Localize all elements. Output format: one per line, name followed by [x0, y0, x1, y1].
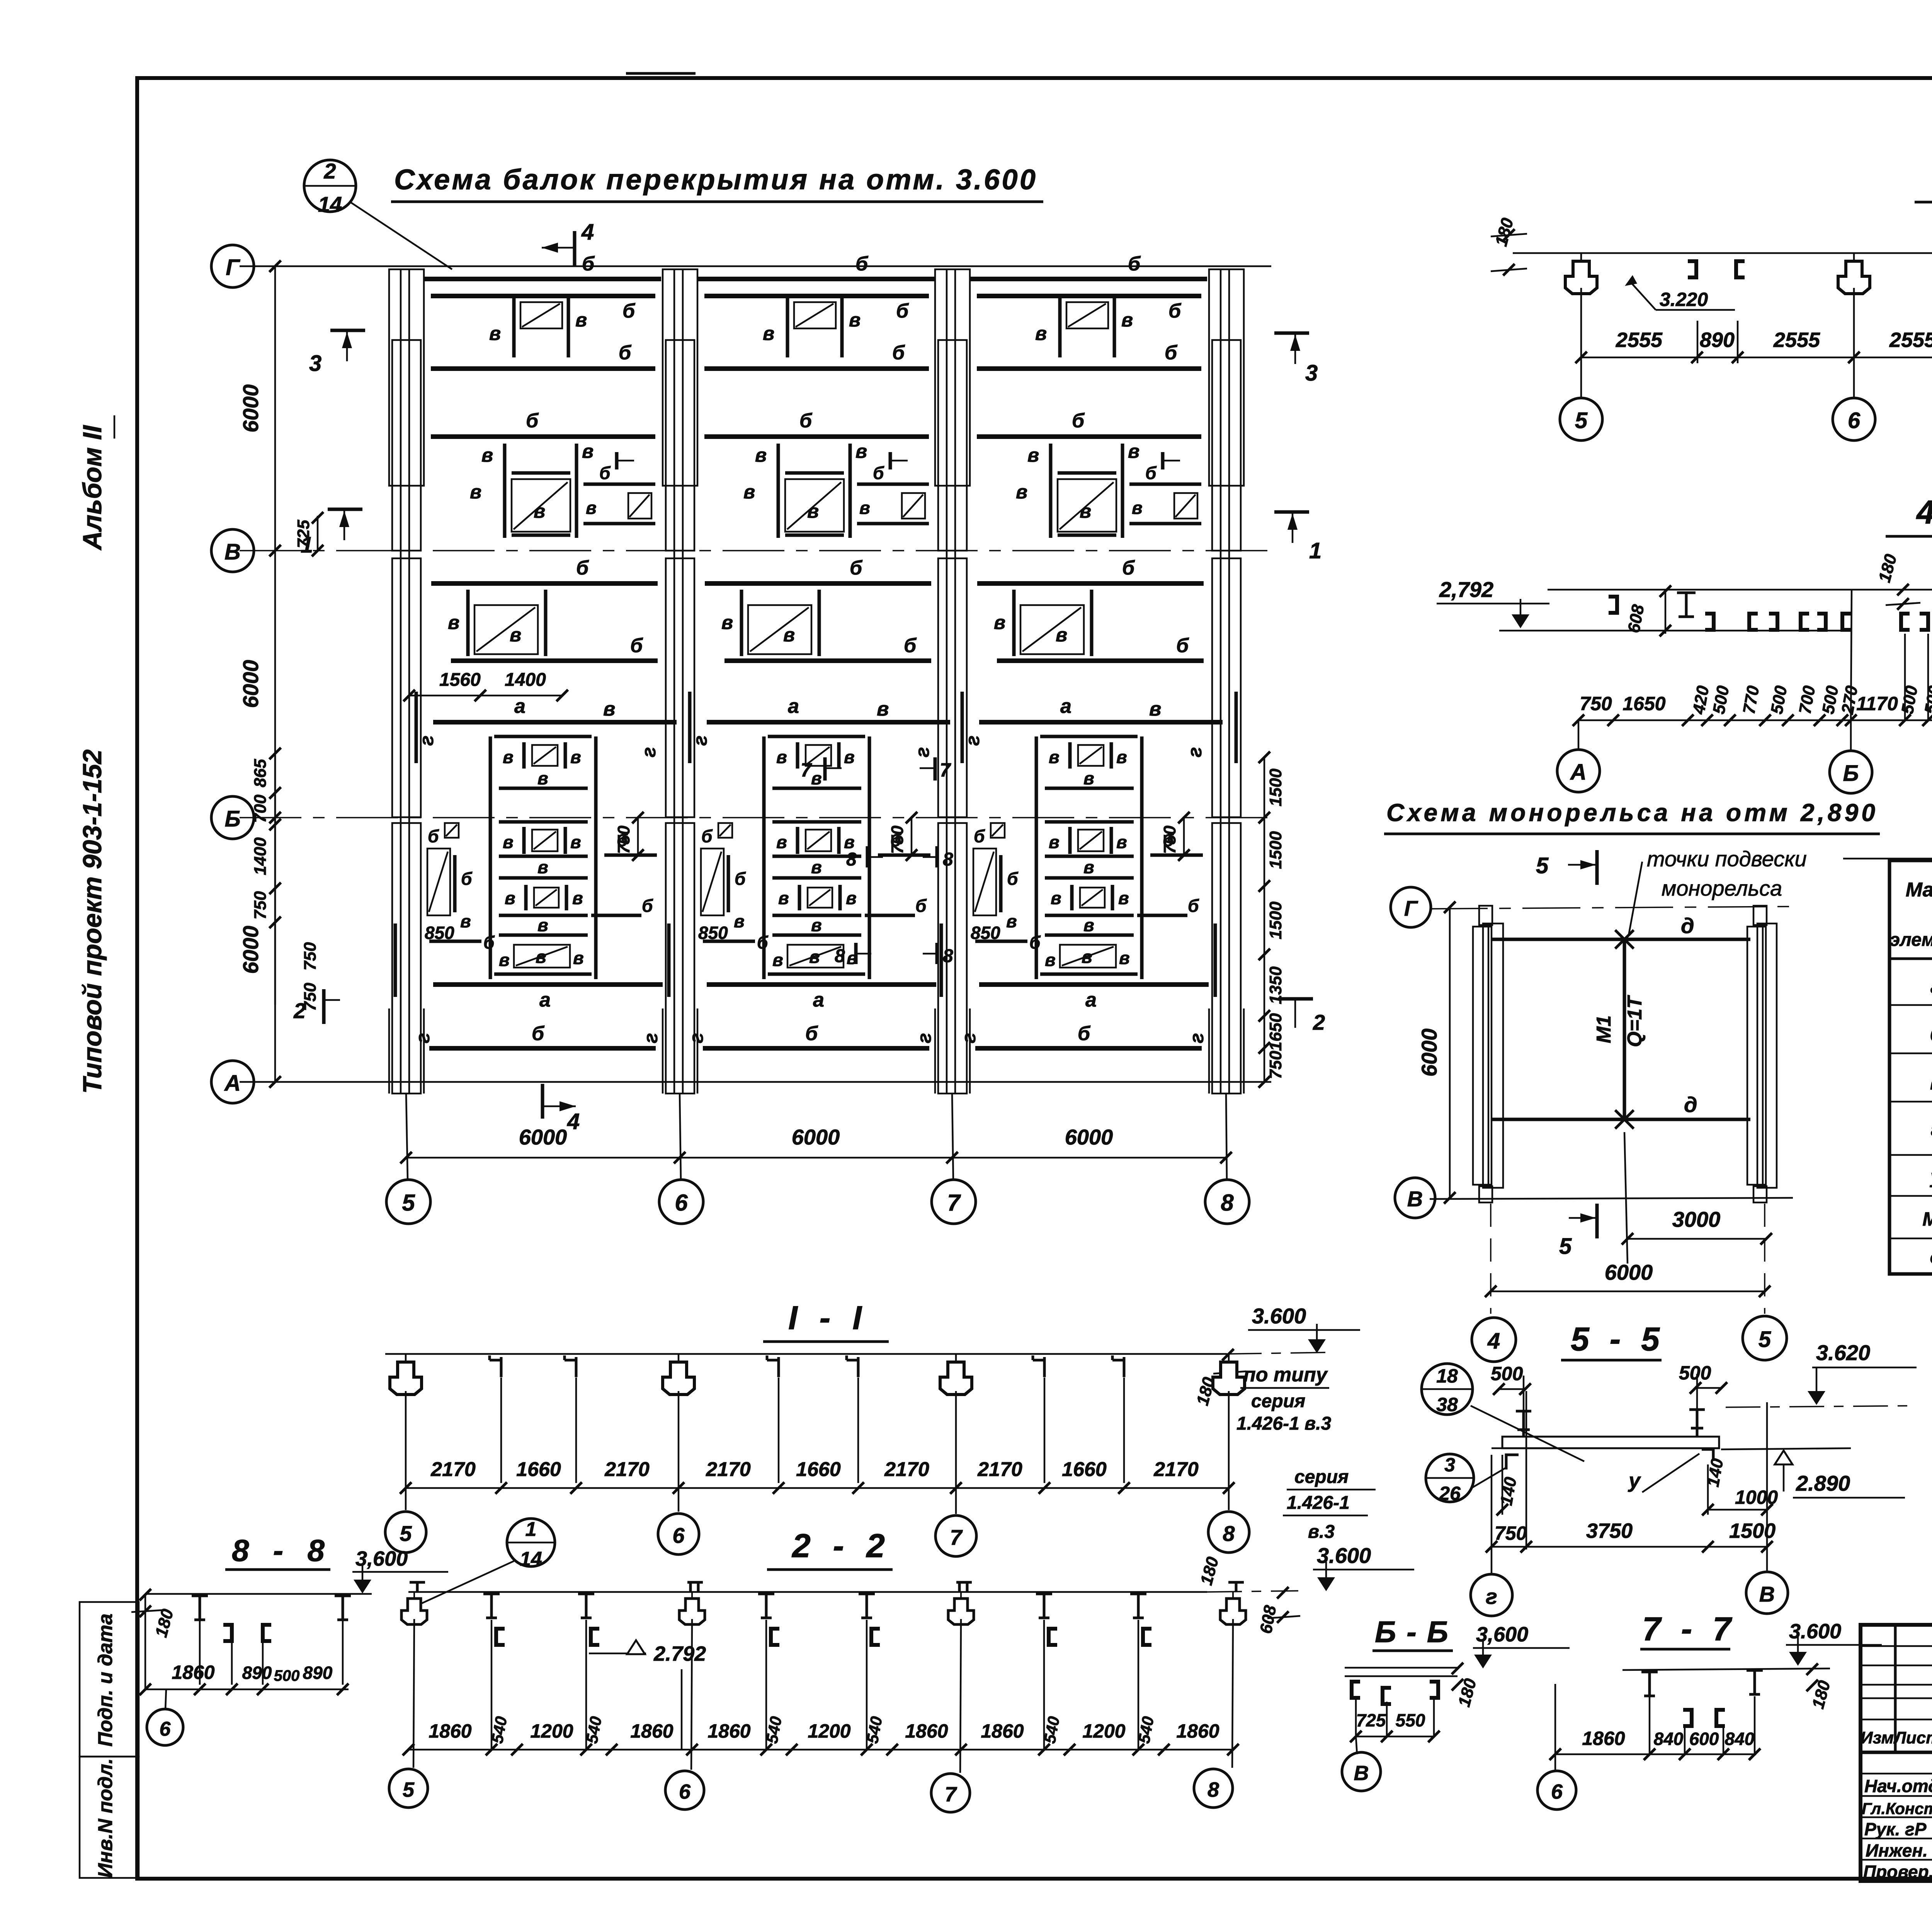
svg-text:26: 26: [1439, 1483, 1461, 1504]
svg-text:7: 7: [950, 1525, 963, 1549]
svg-text:1650: 1650: [1622, 693, 1665, 714]
svg-text:В: В: [1354, 1762, 1369, 1785]
axis line А: [240, 1081, 1271, 1083]
svg-text:Г: Г: [1404, 896, 1418, 920]
I hangers: [192, 1596, 208, 1620]
axis line Г: [240, 265, 1271, 267]
crowns small: [401, 1592, 427, 1624]
svg-text:6: 6: [672, 1523, 685, 1548]
column stubs: [1580, 288, 1582, 398]
dims 1560 1400 (bay 5-6 only): [403, 670, 568, 701]
column stubs to circles: [406, 1094, 408, 1180]
section mark 2 right: [1278, 997, 1313, 1001]
svg-text:14: 14: [318, 192, 342, 216]
top beam д: [1492, 938, 1750, 941]
dim line: [145, 1689, 349, 1690]
svg-text:Б: Б: [224, 806, 240, 832]
svg-text:2170: 2170: [977, 1458, 1022, 1481]
svg-text:2: 2: [1313, 1010, 1325, 1034]
grid circle 6: [659, 1180, 703, 1224]
svg-text:750: 750: [1266, 1051, 1285, 1079]
2.890: [1775, 1451, 1793, 1464]
section mark 5 bottom: [1569, 1217, 1596, 1219]
svg-text:8: 8: [943, 946, 953, 966]
svg-text:2555: 2555: [1616, 328, 1663, 352]
725 sub dim at В: [317, 516, 319, 551]
svg-text:1860: 1860: [1582, 1728, 1625, 1749]
svg-text:д: д: [1681, 913, 1694, 938]
bay 5-6 content: [412, 253, 677, 1048]
section mark 4 bottom: [541, 1084, 544, 1119]
TITLE BLOCK: [1861, 1625, 1932, 1918]
svg-text:750: 750: [251, 891, 270, 920]
axis circles: [389, 1769, 428, 1808]
svg-text:1660: 1660: [1062, 1458, 1107, 1481]
dim line: [1578, 719, 1932, 721]
right dim chain 1500 1500 1350 1650 750: [1264, 818, 1265, 1082]
svg-text:8: 8: [943, 849, 953, 870]
left column: [1473, 927, 1492, 1185]
axis circles: [1471, 1574, 1512, 1616]
3.220 leader: [1625, 275, 1637, 286]
dim line: [1555, 1753, 1756, 1755]
crowns: [390, 1354, 422, 1395]
svg-text:В: В: [1759, 1582, 1775, 1606]
table outer: [1889, 861, 1932, 1274]
svg-text:Рук. гР: Рук. гР: [1864, 1819, 1927, 1839]
svg-text:1860: 1860: [707, 1720, 750, 1742]
svg-text:5: 5: [1759, 1327, 1771, 1352]
axis circle 4: [1472, 1318, 1516, 1362]
svg-text:д: д: [1930, 1246, 1932, 1268]
svg-text:Изм: Изм: [1861, 1728, 1894, 1747]
angle bracket left: [1506, 1455, 1519, 1469]
svg-text:1500: 1500: [1266, 901, 1285, 939]
svg-text:750: 750: [301, 942, 320, 971]
SECTION Б-Б: [1342, 1615, 1570, 1791]
svg-text:г: г: [1931, 1119, 1932, 1140]
axis circle А: [211, 1061, 254, 1103]
svg-text:1400: 1400: [505, 670, 546, 690]
callout circle 2/14: [304, 160, 356, 212]
svg-text:1200: 1200: [1082, 1720, 1125, 1742]
svg-text:Гл.Констр: Гл.Констр: [1862, 1799, 1932, 1818]
outer box: [1861, 1625, 1932, 1881]
svg-text:серия: серия: [1294, 1467, 1349, 1487]
svg-text:3.600: 3.600: [1317, 1543, 1371, 1568]
svg-text:890: 890: [303, 1663, 333, 1683]
axis circle Г: [211, 245, 254, 287]
beam line: [1622, 1668, 1830, 1670]
section marks 7 in bay 6-7: [801, 757, 953, 966]
bottom beam д: [1492, 1118, 1750, 1121]
axis line Б: [240, 817, 1271, 818]
svg-text:8: 8: [1223, 1521, 1235, 1546]
svg-text:6000: 6000: [1417, 1029, 1441, 1077]
svg-text:4: 4: [1487, 1328, 1500, 1354]
svg-text:в: в: [1930, 1072, 1932, 1094]
top line: [1548, 589, 1932, 591]
svg-text:725: 725: [1356, 1710, 1386, 1730]
SECTION 5-5: [1471, 1321, 1917, 1616]
axis circle В: [1356, 1736, 1357, 1754]
channels row left of Б: [1609, 597, 1617, 613]
svg-text:6000: 6000: [238, 660, 263, 708]
svg-text:8: 8: [1221, 1190, 1234, 1216]
dim line: [408, 1749, 1233, 1751]
svg-text:2: 2: [293, 998, 306, 1023]
svg-text:у: у: [1628, 1469, 1641, 1492]
bottom dim line 6000 6000 6000: [406, 1157, 1226, 1159]
left sub dims near Б: 865 700 1400 750 750 750: [274, 753, 276, 1005]
axis line В: [240, 550, 1271, 551]
svg-text:б: б: [1930, 1024, 1932, 1046]
svg-text:5: 5: [403, 1778, 415, 1801]
svg-text:2: 2: [323, 159, 336, 183]
hangers: [1352, 1682, 1360, 1698]
channel pairs: [1688, 261, 1696, 277]
svg-text:Провер.: Провер.: [1863, 1862, 1932, 1882]
svg-text:5: 5: [1559, 1234, 1572, 1259]
svg-text:3: 3: [309, 351, 321, 376]
flag hangers: [490, 1355, 501, 1377]
svg-text:1860: 1860: [905, 1720, 948, 1742]
channels row right of Б: [1901, 614, 1910, 630]
LEFT-MARGIN: [78, 415, 139, 1878]
svg-text:а: а: [1930, 976, 1932, 997]
svg-text:1500: 1500: [1266, 831, 1285, 869]
axis circle 5: [1743, 1316, 1787, 1360]
monorail M1: [1623, 939, 1626, 1119]
svg-text:5: 5: [1575, 408, 1588, 433]
axis circle 6: [165, 1689, 166, 1710]
svg-text:Нач.отд.: Нач.отд.: [1864, 1776, 1932, 1796]
svg-text:2170: 2170: [884, 1458, 929, 1481]
svg-text:3000: 3000: [1672, 1207, 1721, 1231]
svg-text:8: 8: [846, 849, 857, 870]
SECTION 7-7: [1537, 1611, 1882, 1810]
svg-text:865: 865: [251, 759, 270, 787]
svg-text:1660: 1660: [516, 1458, 561, 1481]
svg-text:750: 750: [1495, 1522, 1527, 1544]
svg-text:3,600: 3,600: [355, 1547, 408, 1570]
beam line: [408, 1591, 1207, 1593]
svg-text:1: 1: [301, 532, 313, 558]
I hangers: [1641, 1672, 1658, 1696]
angle bracket right: [1702, 1449, 1713, 1461]
svg-text:1560: 1560: [439, 670, 481, 690]
TABLE Таблица элементов конструкций: [1889, 812, 1932, 1274]
svg-text:7: 7: [801, 759, 812, 781]
svg-text:1500: 1500: [1266, 769, 1285, 806]
vertical stubs to dim line: [1851, 590, 1852, 720]
svg-text:500: 500: [274, 1667, 300, 1684]
upper sub dim 1500 right: [1264, 757, 1265, 818]
svg-text:1.426-1: 1.426-1: [1287, 1493, 1350, 1513]
callout circle 1/14: [507, 1519, 555, 1566]
SECTION 1-1: [385, 1299, 1360, 1604]
svg-text:4 - 4: 4 - 4: [1916, 494, 1932, 531]
svg-text:2170: 2170: [706, 1458, 751, 1481]
crowns at columns: [1565, 253, 1597, 294]
beam plate: [1502, 1437, 1719, 1448]
svg-text:2.792: 2.792: [653, 1642, 706, 1665]
svg-text:2170: 2170: [430, 1458, 476, 1481]
rev table verticals: [1894, 1625, 1897, 1752]
beam line: [1513, 252, 1932, 254]
svg-text:1170: 1170: [1856, 693, 1898, 714]
svg-text:2170: 2170: [1153, 1458, 1199, 1481]
axis Г line: [1430, 906, 1793, 909]
right column: [1747, 927, 1766, 1185]
svg-text:500: 500: [1491, 1363, 1523, 1384]
beam line: [1345, 1667, 1458, 1669]
svg-text:7: 7: [947, 1190, 961, 1216]
svg-text:1.426-1 в.3: 1.426-1 в.3: [1236, 1413, 1331, 1434]
svg-text:6000: 6000: [238, 384, 263, 433]
svg-text:750: 750: [1580, 693, 1612, 714]
I symbol left: [1677, 593, 1696, 617]
svg-text:5: 5: [402, 1190, 415, 1216]
SECTION 4-4: [1437, 494, 1932, 793]
svg-text:2555: 2555: [1889, 328, 1932, 352]
channels: [1683, 1710, 1692, 1726]
header bottom: [1889, 957, 1932, 960]
suspension X marks: [1615, 930, 1634, 949]
grid circle 7: [932, 1180, 976, 1224]
svg-text:600: 600: [1689, 1729, 1719, 1749]
svg-text:1500: 1500: [1729, 1519, 1776, 1543]
PLAN: Схема балок перекрытия на отм. 3.600: [211, 159, 1325, 1224]
svg-text:1860: 1860: [1176, 1720, 1219, 1742]
svg-text:д: д: [1684, 1092, 1697, 1117]
svg-text:М1: М1: [1593, 1015, 1615, 1043]
channel pairs: [223, 1625, 232, 1641]
svg-text:Инжен.: Инжен.: [1866, 1840, 1928, 1861]
svg-text:14: 14: [520, 1548, 542, 1570]
axis В line: [1430, 1198, 1793, 1199]
svg-text:М1: М1: [1922, 1208, 1932, 1230]
svg-text:5: 5: [1536, 853, 1549, 878]
svg-text:Марка: Марка: [1906, 879, 1932, 901]
svg-text:6: 6: [160, 1718, 171, 1740]
svg-text:А: А: [1570, 760, 1587, 785]
svg-text:В: В: [224, 539, 241, 565]
6000 vertical dim: [1449, 907, 1451, 1198]
svg-text:в.3: в.3: [1308, 1522, 1335, 1542]
svg-text:840: 840: [1725, 1729, 1755, 1749]
svg-text:5 - 5: 5 - 5: [1571, 1321, 1660, 1358]
svg-text:38: 38: [1436, 1394, 1458, 1415]
axis circle 6: [1537, 1771, 1576, 1810]
svg-text:1650: 1650: [1266, 1013, 1285, 1051]
svg-text:2,792: 2,792: [1439, 577, 1493, 602]
svg-text:3: 3: [1305, 361, 1318, 386]
dim 3000: [1628, 1238, 1766, 1240]
svg-text:г: г: [1486, 1584, 1497, 1609]
svg-text:8 - 8: 8 - 8: [232, 1533, 325, 1568]
left dim chain 6000x3: [274, 266, 276, 1082]
svg-text:2 - 2: 2 - 2: [791, 1527, 885, 1565]
svg-text:1: 1: [1309, 538, 1321, 563]
svg-text:Г: Г: [226, 255, 240, 280]
margin boxes bottom-left: [80, 1602, 139, 1757]
ticks: [1573, 714, 1584, 726]
top scan dash: [626, 72, 696, 75]
svg-text:точки подвески: точки подвески: [1647, 847, 1807, 871]
grid circle 5: [386, 1180, 430, 1224]
grid circle 8: [1205, 1180, 1249, 1224]
svg-text:6: 6: [675, 1190, 688, 1216]
svg-text:1660: 1660: [796, 1458, 841, 1481]
hanger stub lines to dim: [1697, 321, 1699, 363]
svg-text:6000: 6000: [238, 926, 263, 974]
SECTION 8-8: [131, 1533, 448, 1745]
svg-text:3.600: 3.600: [1252, 1304, 1306, 1328]
svg-text:3.220: 3.220: [1660, 289, 1708, 310]
svg-text:500: 500: [1679, 1362, 1711, 1384]
dim 6000 bottom: [1491, 1291, 1765, 1293]
svg-text:6000: 6000: [1065, 1125, 1113, 1149]
svg-text:5: 5: [400, 1521, 412, 1546]
svg-text:2555: 2555: [1773, 328, 1820, 352]
svg-text:7: 7: [945, 1783, 957, 1806]
svg-text:6: 6: [1848, 408, 1861, 433]
svg-text:1860: 1860: [630, 1720, 673, 1742]
svg-text:А: А: [224, 1071, 241, 1096]
svg-text:Альбом II: Альбом II: [78, 425, 107, 551]
svg-text:Схема балок перекрытия на отм: Схема балок перекрытия на отм. 3.600: [394, 163, 1036, 196]
svg-text:890: 890: [242, 1663, 272, 1683]
beam line: [385, 1353, 1227, 1355]
svg-text:Инв.N подл.: Инв.N подл.: [94, 1758, 117, 1878]
svg-text:1400: 1400: [251, 837, 270, 875]
long left line: [1554, 1684, 1556, 1770]
svg-text:840: 840: [1654, 1729, 1684, 1749]
svg-text:1860: 1860: [981, 1720, 1024, 1742]
axis circles: [385, 1512, 426, 1553]
svg-text:Подп. и дата: Подп. и дата: [94, 1614, 117, 1747]
svg-text:6: 6: [1551, 1780, 1563, 1803]
SECTION 2-2: [389, 1527, 1414, 1812]
svg-text:3750: 3750: [1586, 1519, 1633, 1543]
channel marks under I: [496, 1629, 505, 1645]
axis stubs: [1578, 720, 1580, 750]
left edge line: [1492, 1447, 1502, 1449]
svg-text:8: 8: [1207, 1778, 1219, 1801]
svg-text:Типовой проект 903-1-152: Типовой проект 903-1-152: [78, 749, 107, 1094]
svg-text:700: 700: [251, 794, 270, 823]
svg-text:3,600: 3,600: [1476, 1623, 1528, 1646]
dim line: [406, 1487, 1229, 1489]
svg-text:6000: 6000: [519, 1125, 567, 1149]
bay 6-7 content: [685, 253, 950, 1048]
axis circle В: [211, 529, 254, 572]
svg-text:3.600: 3.600: [1789, 1620, 1841, 1643]
svg-text:8: 8: [835, 946, 845, 966]
svg-text:6000: 6000: [792, 1125, 840, 1149]
svg-text:2.890: 2.890: [1796, 1471, 1850, 1495]
svg-text:6: 6: [679, 1780, 691, 1803]
svg-text:3.620: 3.620: [1816, 1340, 1870, 1365]
svg-text:4: 4: [567, 1109, 580, 1134]
bay 7-8 content: [958, 253, 1223, 1048]
right margin series notes: [1236, 1364, 1584, 1542]
svg-text:серия: серия: [1251, 1391, 1305, 1412]
2.792 mark: [589, 1653, 646, 1655]
svg-text:элемента: элемента: [1890, 930, 1932, 950]
posts: [1516, 1411, 1531, 1437]
svg-text:1860: 1860: [429, 1720, 471, 1742]
svg-text:7 - 7: 7 - 7: [1642, 1611, 1733, 1648]
lower line: [1499, 630, 1852, 632]
row lines: [1889, 1004, 1932, 1006]
I hangers: [483, 1594, 500, 1618]
axis circle Б: [211, 796, 254, 839]
svg-text:Q=1Т: Q=1Т: [1624, 995, 1646, 1047]
axis circles: [1557, 750, 1600, 792]
dim line: [1581, 357, 1932, 359]
beam line: [145, 1593, 372, 1595]
svg-text:2170: 2170: [604, 1458, 650, 1481]
svg-text:1860: 1860: [172, 1662, 214, 1683]
column stubs: [405, 1391, 407, 1510]
svg-text:Б-Б: Б-Б: [1375, 1615, 1448, 1649]
svg-text:18: 18: [1436, 1365, 1458, 1387]
svg-text:1200: 1200: [530, 1720, 573, 1742]
svg-text:4: 4: [581, 219, 594, 245]
axis circles: [1560, 398, 1602, 440]
verticals to circles: [1491, 1455, 1493, 1575]
svg-text:6000: 6000: [1605, 1260, 1653, 1284]
svg-text:1200: 1200: [808, 1720, 850, 1742]
svg-text:В: В: [1407, 1187, 1423, 1211]
svg-text:7: 7: [940, 759, 951, 781]
svg-text:монорельса: монорельса: [1662, 876, 1782, 900]
SECTION 3-3: [1491, 160, 1932, 440]
column stubs: [413, 1619, 414, 1768]
svg-text:Б: Б: [1843, 761, 1859, 786]
svg-text:3: 3: [1444, 1454, 1455, 1476]
svg-text:550: 550: [1396, 1710, 1425, 1730]
svg-text:1: 1: [526, 1518, 537, 1541]
rev table rows: [1861, 1645, 1932, 1647]
staff rows: [1861, 1773, 1932, 1775]
svg-text:Лист: Лист: [1893, 1728, 1932, 1747]
svg-text:890: 890: [1700, 328, 1735, 352]
svg-text:по типу: по типу: [1243, 1364, 1328, 1386]
MONORAIL SCHEME: [1384, 799, 1932, 1362]
left bound: [145, 1595, 146, 1689]
plan columns at grids 5 6 7 8: [389, 269, 424, 1094]
